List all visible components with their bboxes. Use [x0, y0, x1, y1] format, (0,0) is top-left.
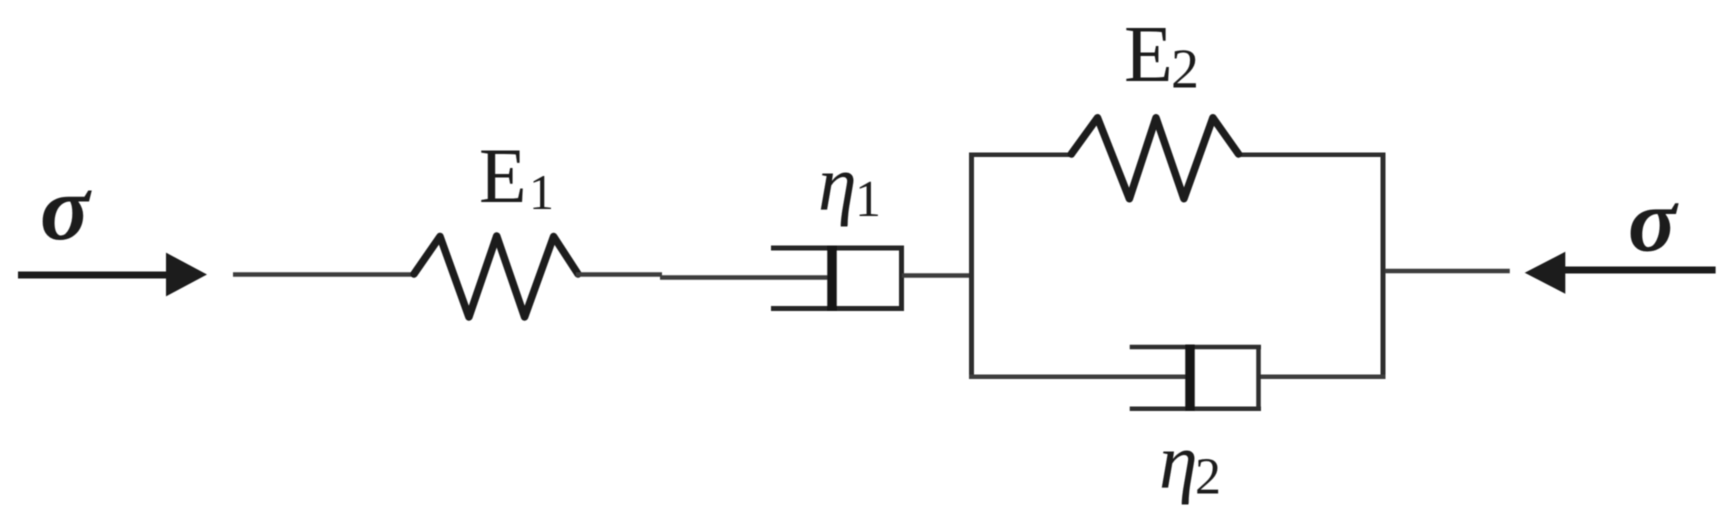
svg-text:1: 1: [529, 164, 554, 220]
svg-text:η: η: [818, 140, 857, 227]
svg-text:E: E: [1124, 11, 1173, 99]
svg-text:1: 1: [855, 171, 881, 228]
svg-text:η: η: [1159, 418, 1198, 505]
svg-text:2: 2: [1195, 449, 1221, 506]
svg-text:2: 2: [1171, 39, 1199, 101]
svg-text:σ: σ: [40, 157, 92, 259]
svg-text:σ: σ: [1628, 172, 1679, 271]
svg-text:E: E: [479, 132, 527, 219]
